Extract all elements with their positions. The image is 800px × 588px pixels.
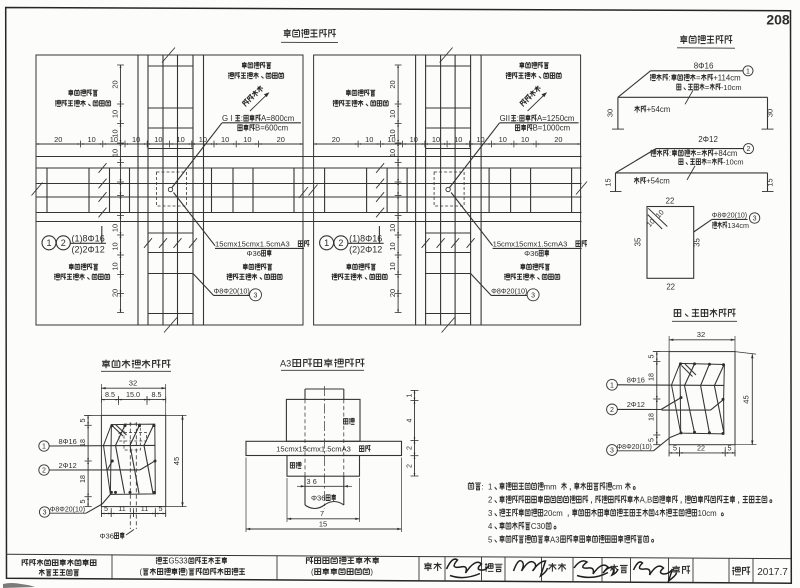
svg-text:Φ36: Φ36 xyxy=(247,249,262,258)
svg-text:A3: A3 xyxy=(550,535,560,544)
svg-text:10: 10 xyxy=(388,149,397,157)
signatures xyxy=(447,559,489,578)
column (vertical beam) lines xyxy=(415,55,417,325)
svg-text:2Φ12: 2Φ12 xyxy=(627,400,645,409)
svg-text:1: 1 xyxy=(406,393,413,397)
vertical dimension chain xyxy=(397,65,399,313)
planting note bottom-left xyxy=(69,263,74,270)
node dashed square xyxy=(434,172,464,206)
beam concrete outline xyxy=(669,352,735,445)
title: grid reinforcement detail (left) xyxy=(284,29,291,38)
svg-text:8.5: 8.5 xyxy=(105,390,115,399)
svg-text:): ) xyxy=(185,568,188,577)
svg-text:3: 3 xyxy=(307,477,311,486)
grid panel outline xyxy=(314,55,581,325)
svg-text:A3: A3 xyxy=(280,359,291,369)
column stirrup rungs xyxy=(426,65,471,67)
svg-text:20: 20 xyxy=(277,135,285,144)
svg-text:2017.7: 2017.7 xyxy=(757,567,788,578)
svg-text:134cm: 134cm xyxy=(727,221,749,230)
svg-text:2: 2 xyxy=(406,446,413,450)
svg-text:2Φ12: 2Φ12 xyxy=(698,135,718,144)
beam stirrup verticals xyxy=(46,168,48,213)
svg-text:20: 20 xyxy=(54,135,62,144)
svg-text:mm: mm xyxy=(544,483,557,492)
lower nut xyxy=(287,456,360,477)
svg-text:G I: G I xyxy=(222,114,232,123)
svg-text:5: 5 xyxy=(728,444,732,453)
dim 8.5 15.0 8.5 xyxy=(101,399,165,401)
svg-text:20: 20 xyxy=(388,80,397,88)
project name xyxy=(156,557,162,564)
svg-text:6: 6 xyxy=(313,477,317,486)
svg-text:B=1000cm: B=1000cm xyxy=(533,124,571,133)
svg-text:20: 20 xyxy=(554,135,562,144)
joint title xyxy=(102,360,110,369)
svg-text:2: 2 xyxy=(488,496,492,505)
title: grid reinforcement detail (right) xyxy=(680,35,687,44)
beam bar dots xyxy=(679,362,682,365)
svg-text:10: 10 xyxy=(388,129,397,137)
planting note top-right xyxy=(242,62,247,69)
svg-text:7: 7 xyxy=(320,509,324,518)
svg-text:10: 10 xyxy=(87,135,95,144)
break marks at panel edges and gap xyxy=(32,183,43,196)
svg-text:10: 10 xyxy=(365,135,373,144)
planting note bottom-right xyxy=(243,263,248,270)
bar break slashes on beam left of column xyxy=(99,163,107,173)
svg-text:3: 3 xyxy=(254,292,258,299)
stirrup label leader xyxy=(694,219,712,232)
left dim chain 5 18 18 5 xyxy=(656,352,658,445)
beam bent bars xyxy=(685,364,695,433)
bottom dim 5 22 5 xyxy=(669,452,735,454)
svg-text:15: 15 xyxy=(604,178,613,186)
svg-text:+54cm: +54cm xyxy=(647,105,671,114)
svg-text:4: 4 xyxy=(655,509,660,518)
right vertical dim chain xyxy=(414,390,416,476)
drawing name xyxy=(306,557,313,564)
vertical dimension chain xyxy=(120,65,122,313)
svg-text:18: 18 xyxy=(78,475,87,483)
svg-text:Φ8Φ20(10): Φ8Φ20(10) xyxy=(491,287,527,296)
svg-text:10: 10 xyxy=(476,135,484,144)
svg-text:=: = xyxy=(705,83,709,92)
dim 32 xyxy=(101,387,165,389)
dim 45 right xyxy=(182,415,184,506)
svg-text:8Φ16: 8Φ16 xyxy=(59,437,77,446)
svg-text:(2)2Φ12: (2)2Φ12 xyxy=(72,244,105,254)
hidden plate dashed plus xyxy=(124,424,140,450)
svg-text:1: 1 xyxy=(42,444,46,451)
dim 45 right xyxy=(751,354,753,445)
svg-text:45: 45 xyxy=(742,395,751,403)
svg-text:A=1250cm: A=1250cm xyxy=(537,114,575,123)
svg-text:10: 10 xyxy=(110,224,119,232)
svg-text:10: 10 xyxy=(221,135,229,144)
svg-text:4: 4 xyxy=(488,522,493,531)
svg-text:208: 208 xyxy=(766,12,790,28)
svg-text:10: 10 xyxy=(521,135,529,144)
svg-text:5: 5 xyxy=(159,504,163,513)
svg-text:10: 10 xyxy=(432,135,440,144)
beam hook laps xyxy=(682,366,693,377)
svg-text:3: 3 xyxy=(488,509,492,518)
svg-text::: : xyxy=(668,73,670,82)
svg-text:2Φ12: 2Φ12 xyxy=(59,461,77,470)
svg-text:15cmx15cmx1.5cmA3: 15cmx15cmx1.5cmA3 xyxy=(215,240,290,249)
company name xyxy=(22,559,28,565)
svg-text:30: 30 xyxy=(606,109,615,117)
leader circled 3 xyxy=(39,507,49,517)
svg-text:22: 22 xyxy=(666,283,675,292)
svg-text:20: 20 xyxy=(110,80,119,88)
leader to stirrup label xyxy=(471,274,492,296)
role labels xyxy=(424,562,432,571)
plate xyxy=(246,441,402,455)
svg-text::: : xyxy=(517,114,519,123)
svg-text:11: 11 xyxy=(141,504,148,513)
break mark below column bottom xyxy=(164,318,177,333)
svg-text:10: 10 xyxy=(110,149,119,157)
break mark below column bottom xyxy=(442,318,455,333)
svg-text:3: 3 xyxy=(43,510,47,517)
beam detail title xyxy=(674,310,680,317)
svg-text:8Φ16: 8Φ16 xyxy=(694,62,714,71)
svg-text:C30: C30 xyxy=(531,522,546,531)
svg-text:8Φ16: 8Φ16 xyxy=(627,376,645,385)
bar 2 with end hooks xyxy=(616,172,768,174)
svg-text:): ) xyxy=(370,568,373,577)
svg-text:Φ8Φ20(10): Φ8Φ20(10) xyxy=(50,506,85,513)
svg-text:4: 4 xyxy=(406,418,413,422)
route direction arrow xyxy=(528,95,545,111)
dim 15 xyxy=(246,528,402,530)
svg-text:Φ36: Φ36 xyxy=(524,249,539,258)
svg-text:10: 10 xyxy=(499,135,507,144)
column (vertical beam) lines xyxy=(137,55,139,325)
svg-text:22: 22 xyxy=(697,444,705,453)
joint hook laps xyxy=(112,426,123,437)
svg-text::: : xyxy=(241,114,243,123)
svg-text:1: 1 xyxy=(488,483,492,492)
svg-text:1: 1 xyxy=(746,68,750,75)
svg-text:Φ36: Φ36 xyxy=(100,532,115,541)
leader circled 2 xyxy=(39,465,49,475)
svg-text:(: ( xyxy=(311,568,314,577)
svg-text:5: 5 xyxy=(104,504,108,513)
joint concrete outline xyxy=(101,415,165,506)
dim 32 xyxy=(669,339,735,341)
svg-text:G533: G533 xyxy=(169,557,188,566)
svg-text:10cm: 10cm xyxy=(698,509,717,518)
bar break slashes on column below node xyxy=(144,238,152,248)
joint stirrup with bars xyxy=(110,424,155,494)
dim 7 xyxy=(287,518,360,520)
svg-text:32: 32 xyxy=(129,379,137,388)
svg-text:=: = xyxy=(696,73,701,82)
leader node to plate label xyxy=(174,193,216,246)
joint bar dots xyxy=(110,424,113,427)
anchor circle at node xyxy=(446,187,450,191)
bar break slashes on column below node xyxy=(422,238,430,248)
svg-text:20: 20 xyxy=(388,289,397,297)
svg-text:Φ8Φ20(10): Φ8Φ20(10) xyxy=(214,287,250,296)
planting note top-left xyxy=(68,89,73,96)
leader node to type label xyxy=(172,123,222,188)
svg-text:5: 5 xyxy=(78,419,87,423)
svg-text:10: 10 xyxy=(388,242,397,250)
svg-text:A,B: A,B xyxy=(640,496,653,505)
svg-text:10: 10 xyxy=(388,110,397,118)
svg-text:=: = xyxy=(707,158,711,167)
svg-text:5: 5 xyxy=(488,535,493,544)
svg-text:+54cm: +54cm xyxy=(646,177,670,186)
svg-text:2: 2 xyxy=(61,238,66,248)
svg-text:5: 5 xyxy=(78,500,87,504)
planting note bottom-left xyxy=(346,263,351,270)
svg-text:18: 18 xyxy=(647,373,656,381)
svg-text:1: 1 xyxy=(46,238,51,248)
joint bent bars xyxy=(116,425,126,493)
anchor circle at node xyxy=(168,187,172,191)
svg-text::: : xyxy=(482,482,484,491)
svg-text:18: 18 xyxy=(647,413,656,421)
break mark above column top xyxy=(162,48,175,63)
nut labels xyxy=(344,419,348,424)
svg-text:5: 5 xyxy=(673,444,677,453)
center line xyxy=(323,386,325,509)
dim 3 6 xyxy=(305,485,344,487)
svg-text:=: = xyxy=(697,149,702,158)
svg-text:3: 3 xyxy=(531,292,535,299)
svg-text:15: 15 xyxy=(319,520,327,529)
svg-text:35: 35 xyxy=(693,238,702,247)
svg-text:10: 10 xyxy=(199,135,207,144)
planting note bottom-right xyxy=(520,263,525,270)
svg-text:15: 15 xyxy=(766,178,775,186)
leader circled 2 xyxy=(607,404,618,415)
svg-text:10: 10 xyxy=(132,135,140,144)
svg-text:-10cm: -10cm xyxy=(721,83,742,92)
left dim chain 5 18 18 5 xyxy=(87,415,89,506)
svg-text:10: 10 xyxy=(110,129,119,137)
bar list circled 1 2 xyxy=(42,236,56,250)
svg-text:10: 10 xyxy=(110,110,119,118)
svg-text:15cmx15cmx1.5cmA3: 15cmx15cmx1.5cmA3 xyxy=(276,445,351,454)
svg-text:10: 10 xyxy=(154,135,162,144)
node dashed square xyxy=(157,172,187,206)
svg-text:10: 10 xyxy=(388,262,397,270)
svg-text:2: 2 xyxy=(747,146,751,153)
svg-text:cm: cm xyxy=(612,483,622,492)
svg-text:32: 32 xyxy=(697,330,705,339)
lower rod with wavy break xyxy=(304,476,306,505)
svg-text:(: ( xyxy=(139,568,142,577)
svg-text:45: 45 xyxy=(172,457,181,465)
svg-text:2: 2 xyxy=(338,238,343,248)
column stirrup rungs xyxy=(148,65,193,67)
svg-text:22: 22 xyxy=(666,197,675,206)
svg-text:1: 1 xyxy=(324,238,329,248)
beam stirrup with bars xyxy=(680,363,724,434)
svg-text:10: 10 xyxy=(410,135,418,144)
svg-text:10: 10 xyxy=(243,135,251,144)
svg-text:(1)8Φ16: (1)8Φ16 xyxy=(349,233,382,243)
stirrup rectangle no.3 xyxy=(647,207,694,279)
svg-text:20: 20 xyxy=(332,135,340,144)
svg-text:2: 2 xyxy=(42,468,46,475)
svg-text:5: 5 xyxy=(647,438,656,442)
svg-text:3: 3 xyxy=(610,448,614,455)
break mark above column top xyxy=(440,48,453,63)
svg-text:(1)8Φ16: (1)8Φ16 xyxy=(72,233,105,243)
svg-text::: : xyxy=(669,149,671,158)
anchor rod dashed xyxy=(129,422,131,529)
leader circled 1 xyxy=(607,379,618,390)
planting note top-left xyxy=(346,89,351,96)
svg-text:+114cm: +114cm xyxy=(713,73,740,82)
svg-text:3: 3 xyxy=(753,216,757,223)
svg-text:B=600cm: B=600cm xyxy=(255,124,288,133)
bar list circled 1 2 xyxy=(320,236,334,250)
planting note top-right xyxy=(519,62,524,69)
bottom dim 5 11 11 5 xyxy=(101,513,165,515)
svg-text:35: 35 xyxy=(634,237,643,246)
svg-text:Φ8Φ20(10): Φ8Φ20(10) xyxy=(617,444,652,451)
leader node to type label xyxy=(450,123,500,188)
stirrup hook laps xyxy=(648,208,667,226)
svg-text:A=800cm: A=800cm xyxy=(261,114,294,123)
svg-text:1: 1 xyxy=(610,382,614,389)
svg-text:-10cm: -10cm xyxy=(723,158,744,167)
upper nut xyxy=(286,399,360,441)
horizontal dimension row xyxy=(314,143,581,145)
corner smudge xyxy=(3,583,35,588)
svg-text:10: 10 xyxy=(454,135,462,144)
bar 1 with end hooks xyxy=(618,96,768,98)
svg-text:(2)2Φ12: (2)2Φ12 xyxy=(349,244,382,254)
svg-text:5: 5 xyxy=(647,355,656,359)
svg-text:8.5: 8.5 xyxy=(152,390,162,399)
svg-text:10: 10 xyxy=(176,135,184,144)
hidden rod edges dashed xyxy=(304,399,306,476)
horizontal dimension row xyxy=(36,143,303,145)
svg-text:Φ36: Φ36 xyxy=(311,494,326,503)
svg-text:GII: GII xyxy=(500,114,510,123)
leader circled 1 xyxy=(39,441,49,451)
svg-text:10: 10 xyxy=(110,242,119,250)
grid panel outline xyxy=(36,55,303,325)
svg-text:11: 11 xyxy=(118,504,125,513)
leader to stirrup label xyxy=(193,274,214,296)
leader node to plate label xyxy=(451,193,493,246)
route direction arrow xyxy=(250,95,267,111)
horizontal beam chords across both panels xyxy=(36,156,582,158)
leader circled 3 xyxy=(607,445,618,456)
svg-text:20cm: 20cm xyxy=(544,509,563,518)
svg-text:2: 2 xyxy=(610,407,614,414)
svg-text:15.0: 15.0 xyxy=(126,390,140,399)
svg-text:30: 30 xyxy=(766,109,775,117)
svg-text:15cmx15cmx1.5cmA3: 15cmx15cmx1.5cmA3 xyxy=(493,240,568,249)
svg-text:10: 10 xyxy=(110,262,119,270)
svg-text:20: 20 xyxy=(110,289,119,297)
svg-text:2: 2 xyxy=(406,464,413,468)
svg-text:10: 10 xyxy=(388,224,397,232)
svg-text:Φ8Φ20(10): Φ8Φ20(10) xyxy=(712,213,747,220)
top rod stub xyxy=(304,389,306,399)
